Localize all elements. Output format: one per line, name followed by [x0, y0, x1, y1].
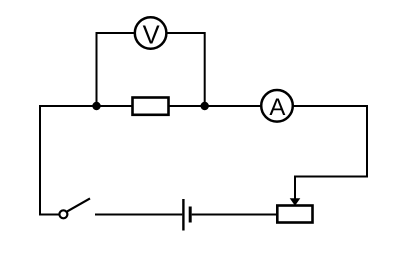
- rheostat box: [277, 206, 312, 223]
- battery cell: long plate (positive): [182, 199, 184, 231]
- wire: main top wire, left segment (left corner to resistor): [40, 105, 133, 107]
- rheostat wiper arrowhead: [290, 198, 301, 206]
- battery cell: short plate (negative): [189, 207, 192, 223]
- node: left junction dot: [92, 102, 100, 110]
- wire: left side vertical and bottom-left stub to switch: [40, 105, 59, 215]
- svg-text:V: V: [143, 21, 160, 49]
- wire: voltmeter branch right (from voltmeter right, then down to right junction): [167, 33, 205, 107]
- wire: switch to battery: [95, 214, 182, 216]
- svg-text:A: A: [269, 94, 285, 121]
- resistor R (fixed resistor box): [133, 98, 169, 115]
- wire: voltmeter branch left (vertical from left junction up, then right to voltmeter): [97, 33, 135, 107]
- wire: main top wire, middle segment (resistor to ammeter): [169, 105, 262, 107]
- wire: main top wire, right segment (ammeter to top-right corner): [293, 105, 368, 107]
- ammeter A: [261, 90, 293, 122]
- switch S (open switch: pivot circle + blade): [59, 198, 90, 218]
- wire: right vertical down, jog left, then down to rheostat wiper: [295, 105, 367, 199]
- wire: battery to rheostat left terminal: [192, 214, 277, 216]
- voltmeter V: [135, 17, 167, 49]
- node: right junction dot: [201, 102, 209, 110]
